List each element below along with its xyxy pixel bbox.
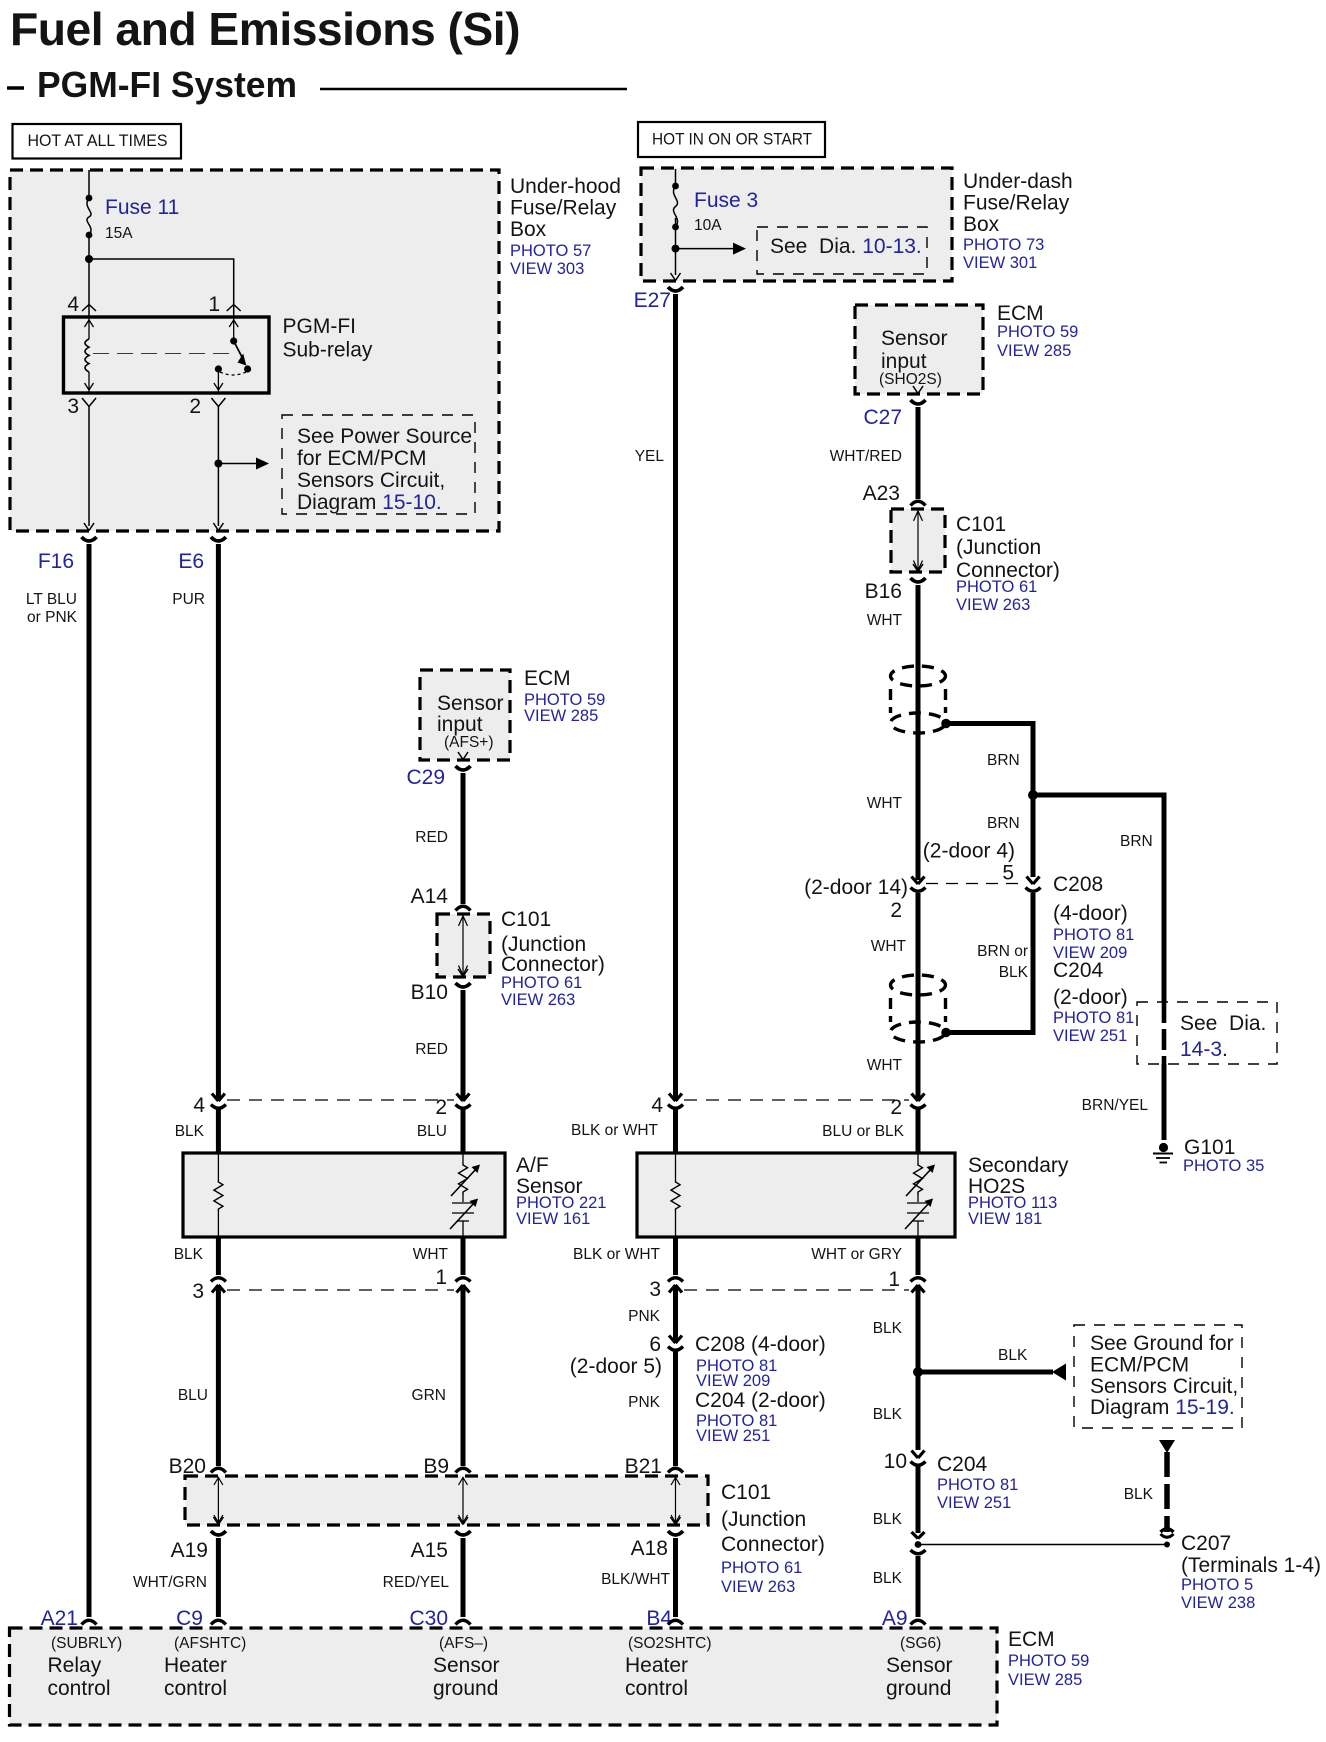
svg-text:A19: A19 [171,1539,208,1562]
svg-text:Sensor: Sensor [886,1654,953,1677]
under-hood box label [510,175,621,278]
HO2S resistor [671,1180,680,1212]
svg-text:1: 1 [208,293,220,316]
svg-text:A/F: A/F [516,1154,549,1177]
subtitle rule [320,88,627,91]
C101 long internal arrow B21 [671,1477,680,1523]
wire shield2 to HO2S pin2 [916,1042,921,1101]
HO2S pins 4-2 dashed line [684,1099,909,1101]
svg-text:See Dia.: See Dia. [1180,1012,1266,1035]
wire B10 to AF pin2 [461,990,466,1101]
wire AF pin1 stub [461,1237,466,1275]
ECM bottom label SG6 [886,1635,953,1700]
svg-text:VIEW 263: VIEW 263 [501,991,575,1009]
AF pin4 connector [211,1094,226,1109]
HO2S cell leads [917,1153,919,1237]
HO2S pin1 connector [911,1278,926,1293]
svg-text:Fuse/Relay: Fuse/Relay [963,192,1070,215]
svg-text:YEL: YEL [635,448,665,465]
A/F sensor box [183,1153,505,1237]
svg-text:VIEW 238: VIEW 238 [1181,1594,1255,1612]
C30 entry chevron [456,1620,471,1624]
svg-text:Under-dash: Under-dash [963,170,1073,193]
A/F sensor heater element [450,1199,478,1230]
svg-text:3: 3 [67,395,79,418]
svg-text:B16: B16 [865,580,902,603]
svg-text:2: 2 [435,1096,447,1119]
svg-text:BLK/WHT: BLK/WHT [601,1571,670,1588]
svg-text:(SUBRLY): (SUBRLY) [51,1635,122,1652]
svg-text:E6: E6 [178,550,204,573]
relay coil wire top [85,318,94,339]
A9 entry chevron [911,1620,926,1624]
svg-text:WHT/RED: WHT/RED [830,448,902,465]
svg-text:VIEW 263: VIEW 263 [721,1578,795,1596]
ECM SHO2S right label [997,302,1078,360]
svg-text:2: 2 [890,899,902,922]
junction dot BLK branch [913,1367,923,1377]
svg-text:(AFS–): (AFS–) [439,1635,488,1652]
svg-text:RED: RED [415,1041,448,1058]
svg-text:(2-door 4): (2-door 4) [923,840,1015,863]
C9 entry chevron [211,1620,226,1624]
wire HO2S pin3 to pin6 [673,1285,678,1343]
see dia 14-3 box [1137,1002,1277,1064]
svg-text:4: 4 [193,1094,205,1117]
BRN wire to G101 [1033,795,1164,1002]
wire fuse3 to junction [675,218,677,275]
junction dot fuse11 branch [85,255,93,263]
svg-text:C204: C204 [937,1453,988,1476]
svg-text:10: 10 [884,1450,907,1473]
svg-text:BLU: BLU [417,1123,447,1140]
E27 exit connector [668,273,683,291]
junction dot see-power branch [214,460,222,468]
A19 exit connector [211,1517,226,1535]
svg-text:C204: C204 [1053,959,1104,982]
AF pin1 connector [456,1278,471,1293]
wire through shields to C208 [916,666,921,880]
wire AF pin3 to B20 [216,1285,221,1466]
wire pin10 to C207 [916,1466,921,1533]
C101 junction connector long box [185,1476,708,1525]
wire junction to relay pin 4 [88,259,90,305]
fuse F3 symbol [672,169,679,230]
svg-text:WHT: WHT [413,1246,449,1263]
svg-text:BLK: BLK [873,1570,903,1587]
wire AF pin1 to B9 [461,1285,466,1466]
A/F sensor resistor leads [217,1153,219,1237]
svg-text:(SG6): (SG6) [900,1635,941,1652]
B4 entry chevron [668,1620,683,1624]
wire F16 to A21 [87,544,92,1617]
svg-text:BLK: BLK [873,1320,903,1337]
svg-text:VIEW 301: VIEW 301 [963,254,1037,272]
label HOT AT ALL TIMES [13,124,182,159]
ECM bottom label AFS- [433,1635,500,1700]
svg-text:(Junction: (Junction [721,1508,806,1531]
svg-text:F16: F16 [38,550,74,573]
svg-text:(2-door 5): (2-door 5) [570,1355,662,1378]
svg-text:4: 4 [651,1094,663,1117]
svg-text:BRN: BRN [1120,833,1153,850]
svg-text:input: input [881,350,927,373]
svg-text:PHOTO 5: PHOTO 5 [1181,1576,1253,1594]
relay pin 3 exit cup [82,398,96,407]
svg-text:1: 1 [888,1268,900,1291]
svg-text:ground: ground [886,1677,951,1700]
relay pin 4 entry chevron [82,305,96,318]
relay pin 1 entry chevron [227,305,241,318]
AF pin3 connector [211,1278,226,1293]
svg-text:Sensor: Sensor [437,692,504,715]
svg-text:or PNK: or PNK [27,609,78,626]
ECM sensor input SHO2S box [855,305,983,394]
wire AF pin4 stub [216,1109,221,1153]
C101 long internal arrow B9 [459,1477,468,1523]
A/F sensor resistor [214,1180,223,1212]
svg-text:Box: Box [510,218,547,241]
AF pins 4-2 dashed line [227,1099,454,1101]
wire C208 to shield2 [916,893,921,1101]
ECM bottom label SUBRLY [48,1635,123,1700]
svg-text:Under-hood: Under-hood [510,175,621,198]
wire HO2S pin2 stub [916,1109,921,1153]
C101 long label [721,1481,825,1596]
ECM bottom label AFSHTC [164,1635,246,1700]
svg-text:PHOTO 81: PHOTO 81 [1053,926,1134,944]
fuse F11 symbol [86,195,93,239]
wire relay pin3 to F16 [88,407,90,527]
svg-text:PNK: PNK [628,1394,661,1411]
svg-text:WHT or GRY: WHT or GRY [811,1246,902,1263]
label LT BLU or PNK [26,591,78,626]
C27 exit connector [911,386,926,404]
relay switch fixed dot pin2 [215,365,222,372]
wire HO2S pin1 stub [916,1237,921,1275]
svg-text:WHT: WHT [867,612,903,629]
svg-text:B10: B10 [411,981,448,1004]
A/F sensor label [516,1154,606,1228]
svg-text:BLK or WHT: BLK or WHT [573,1246,661,1263]
wire AF pin3 stub [216,1237,221,1275]
svg-text:GRN: GRN [412,1387,446,1404]
C29 exit connector [456,752,471,770]
svg-text:Fuse 3: Fuse 3 [694,189,758,212]
wire C29 to A14 [461,773,466,904]
svg-text:See Power Source: See Power Source [297,425,472,448]
AF pins 3-1 dashed line [227,1289,454,1291]
ECM SHO2S box inner text [879,327,948,388]
shield cylinder 1 [891,666,951,733]
svg-text:2: 2 [890,1096,902,1119]
label PGM-FI Sub-relay [283,315,373,362]
relay switch contact arm [230,337,251,372]
svg-text:(2-door): (2-door) [1053,986,1128,1009]
svg-text:for ECM/PCM: for ECM/PCM [297,447,427,470]
C208 pin14 connector [911,877,926,892]
C207 link wire [918,1544,1167,1546]
svg-text:BLK: BLK [175,1123,205,1140]
svg-text:PHOTO 81: PHOTO 81 [1053,1009,1134,1027]
svg-text:VIEW 285: VIEW 285 [1008,1671,1082,1689]
svg-text:WHT: WHT [871,938,907,955]
svg-text:Fuel and Emissions (Si): Fuel and Emissions (Si) [10,3,520,55]
relay pin 2 exit cup [211,398,225,407]
HO2S pins 3-1 dashed line [684,1289,909,1291]
svg-text:Connector): Connector) [501,953,605,976]
svg-text:VIEW 251: VIEW 251 [1053,1027,1127,1045]
see dia 10-13 box [757,227,927,274]
svg-text:VIEW 303: VIEW 303 [510,260,584,278]
C101 A23-B16 label [956,513,1060,614]
svg-text:BLK: BLK [998,1347,1028,1364]
svg-text:BLK: BLK [873,1511,903,1528]
svg-text:(Terminals 1-4): (Terminals 1-4) [1181,1554,1321,1577]
svg-text:Sensors Circuit,: Sensors Circuit, [1090,1375,1238,1398]
F16 exit connector [82,523,97,541]
svg-text:Diagram 15-19.: Diagram 15-19. [1090,1396,1235,1419]
HO2S heater element [905,1199,933,1230]
svg-text:BRN or: BRN or [977,943,1028,960]
under-dash box label [963,170,1073,272]
svg-text:(Junction: (Junction [956,536,1041,559]
see power source text [297,425,472,514]
svg-text:10A: 10A [694,217,722,234]
see ground box [1074,1325,1242,1428]
svg-text:C207: C207 [1181,1532,1231,1555]
svg-text:G101: G101 [1184,1136,1235,1159]
relay box PGM-FI sub-relay [64,317,270,393]
svg-text:3: 3 [192,1280,204,1303]
B21 entry chevron [668,1468,683,1472]
svg-text:VIEW 209: VIEW 209 [696,1372,770,1390]
svg-text:BRN/YEL: BRN/YEL [1082,1097,1149,1114]
HO2S resistor leads [675,1153,677,1237]
wire fuse to junction [88,235,90,259]
under-hood fuse/relay box [10,170,499,531]
svg-text:RED: RED [415,829,448,846]
svg-text:Relay: Relay [48,1654,102,1677]
wire A19 to C9 [216,1538,221,1617]
svg-text:Diagram 15-10.: Diagram 15-10. [297,491,442,514]
BLK dashed wire to C207 [1164,1452,1170,1532]
svg-text:3: 3 [649,1278,661,1301]
wire C27 to A23 [916,407,921,499]
svg-text:(SHO2S): (SHO2S) [879,371,942,388]
ground G101 [1153,1143,1173,1163]
svg-text:WHT/GRN: WHT/GRN [133,1574,207,1591]
svg-text:2: 2 [189,395,201,418]
wire HO2S pin3 stub [673,1237,678,1275]
svg-text:1: 1 [435,1266,447,1289]
svg-text:PHOTO 35: PHOTO 35 [1183,1157,1264,1175]
svg-text:BRN: BRN [987,815,1020,832]
arrow to see power source box [218,458,269,470]
wire E27 to HO2S pin4 [673,294,678,1101]
svg-text:BLK or WHT: BLK or WHT [571,1122,659,1139]
B9 entry chevron [456,1468,471,1472]
BRN drain wire from shield1 [945,724,1033,878]
svg-text:15A: 15A [105,225,133,242]
svg-text:PHOTO 81: PHOTO 81 [937,1476,1018,1494]
svg-text:Heater: Heater [164,1654,227,1677]
A/F sensor cell leads [462,1153,464,1237]
secondary HO2S box [637,1153,955,1237]
secondary HO2S label [968,1154,1069,1228]
svg-text:ECM: ECM [524,667,571,690]
svg-text:PGM-FI: PGM-FI [283,315,357,338]
svg-text:Connector): Connector) [721,1533,825,1556]
arrow to see dia 10-13 [676,243,747,255]
svg-text:Sub-relay: Sub-relay [283,339,373,362]
svg-text:(SO2SHTC): (SO2SHTC) [628,1635,712,1652]
svg-text:PUR: PUR [172,591,205,608]
A15 exit connector [456,1517,471,1535]
relay pin2 wire [214,371,223,392]
svg-text:RED/YEL: RED/YEL [383,1574,450,1591]
E6 exit connector [211,523,226,541]
svg-text:PHOTO 61: PHOTO 61 [956,578,1037,596]
svg-text:A23: A23 [863,482,900,505]
svg-text:E27: E27 [634,289,671,312]
C101 long internal arrow B20 [214,1477,223,1523]
relay switch dashed throw arc [220,372,246,375]
wire C207 to A9 [916,1556,921,1617]
svg-text:Sensor: Sensor [433,1654,500,1677]
svg-text:VIEW 251: VIEW 251 [696,1427,770,1445]
HO2S pin3 connector [668,1278,683,1293]
svg-text:control: control [164,1677,227,1700]
relay coil wire bottom [85,372,94,392]
B20 entry chevron [211,1468,226,1472]
wire A18 to B4 [673,1538,678,1617]
see ground text [1090,1332,1238,1419]
svg-text:ECM/PCM: ECM/PCM [1090,1354,1189,1377]
wire A15 to C30 [461,1538,466,1617]
svg-text:(AFS+): (AFS+) [444,734,494,751]
svg-text:VIEW 161: VIEW 161 [516,1210,590,1228]
svg-text:PNK: PNK [628,1308,661,1325]
svg-text:LT BLU: LT BLU [26,591,77,608]
wire pin6 to B21 [673,1351,678,1466]
HO2S pin4 connector [668,1094,683,1109]
svg-text:VIEW 251: VIEW 251 [937,1494,1011,1512]
svg-text:C101: C101 [501,908,551,931]
svg-text:PHOTO 61: PHOTO 61 [501,974,582,992]
svg-text:BLK: BLK [999,964,1029,981]
HO2S variable cell [906,1163,935,1196]
svg-text:VIEW 285: VIEW 285 [524,707,598,725]
relay mechanical link dashed [93,353,232,355]
subtitle PGM-FI System [7,64,297,105]
svg-text:control: control [625,1677,688,1700]
svg-text:C27: C27 [863,406,902,429]
C101 junction connector box A23-B16 [891,509,945,572]
label BRN or BLK [977,943,1028,981]
svg-text:VIEW 181: VIEW 181 [968,1210,1042,1228]
svg-text:PHOTO 59: PHOTO 59 [997,323,1078,341]
wire fuse 11 feed [88,170,90,198]
svg-text:Secondary: Secondary [968,1154,1069,1177]
junction dot fuse3 branch [672,245,680,253]
svg-text:See Dia. 10-13.: See Dia. 10-13. [770,235,922,258]
C101 A14-B10 internal arrow [459,915,468,976]
svg-text:VIEW 285: VIEW 285 [997,342,1071,360]
relay switch wire pin1 [229,318,238,341]
C101 junction connector box A14-B10 [437,914,490,977]
svg-text:control: control [48,1677,111,1700]
svg-text:Box: Box [963,213,1000,236]
svg-text:ground: ground [433,1677,498,1700]
B16 exit connector [911,564,926,582]
svg-text:VIEW 263: VIEW 263 [956,596,1030,614]
A23 entry chevron [911,501,926,505]
svg-text:ECM: ECM [1008,1628,1055,1651]
arrow below see ground box [1159,1440,1175,1453]
ECM sensor input AFS+ box [420,670,510,760]
C101 A14-B10 label [501,908,605,1009]
C208 C204 label block [1053,873,1134,1045]
svg-text:A15: A15 [411,1539,448,1562]
A21 entry chevron [82,1620,97,1624]
svg-text:C204 (2-door): C204 (2-door) [695,1389,826,1412]
C208 pin6 connector [668,1336,683,1351]
svg-text:C101: C101 [721,1481,771,1504]
wire E6 to AF pin4 [216,544,221,1101]
C207 junction on A9 wire [911,1532,926,1554]
svg-text:Sensors Circuit,: Sensors Circuit, [297,469,445,492]
svg-text:Fuse/Relay: Fuse/Relay [510,197,617,220]
C208 C204 pin6 label block [695,1333,826,1445]
AF pin2 connector [456,1094,471,1109]
svg-text:WHT: WHT [867,795,903,812]
svg-text:C208 (4-door): C208 (4-door) [695,1333,826,1356]
svg-text:BLK: BLK [873,1406,903,1423]
BRN wire inside see dia box dashed [1162,1002,1167,1064]
relay coil [85,339,89,372]
C208 pin5 connector [1026,877,1041,892]
svg-text:A18: A18 [631,1537,668,1560]
svg-text:PHOTO 73: PHOTO 73 [963,236,1044,254]
ECM AFS+ right label [524,667,605,725]
svg-text:(4-door): (4-door) [1053,902,1128,925]
svg-text:6: 6 [649,1333,661,1356]
A/F sensor variable cell [451,1163,480,1196]
svg-text:ECM: ECM [997,302,1044,325]
svg-text:BLK: BLK [174,1246,204,1263]
see power source box [282,415,475,514]
svg-text:BLU or BLK: BLU or BLK [822,1123,905,1140]
svg-text:Fuse 11: Fuse 11 [105,196,179,219]
svg-text:See Ground for: See Ground for [1090,1332,1234,1355]
svg-text:PHOTO 61: PHOTO 61 [721,1559,802,1577]
ECM bottom label SO2SHTC [625,1635,712,1700]
svg-text:(2-door 14): (2-door 14) [804,876,908,899]
svg-text:PHOTO 57: PHOTO 57 [510,242,591,260]
wire B16 to shield1 [916,585,921,666]
svg-text:PGM-FI System: PGM-FI System [37,64,297,105]
svg-text:BLU: BLU [178,1387,208,1404]
wire HO2S pin4 stub [673,1109,678,1153]
svg-text:14-3.: 14-3. [1180,1038,1228,1061]
svg-text:C29: C29 [406,766,445,789]
wire relay pin2 to E6 [217,407,219,527]
svg-text:4: 4 [67,293,79,316]
B10 exit connector [456,969,471,987]
svg-text:A14: A14 [411,885,449,908]
svg-text:BLK: BLK [1124,1486,1154,1503]
